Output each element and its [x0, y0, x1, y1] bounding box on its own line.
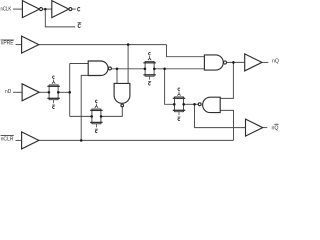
svg-text:nCLK: nCLK [1, 7, 12, 13]
svg-text:nQ: nQ [272, 58, 279, 64]
svg-text:nQ: nQ [272, 125, 280, 131]
svg-text:nPRE: nPRE [1, 41, 14, 47]
svg-text:nCLR: nCLR [1, 137, 14, 143]
svg-text:nD: nD [5, 89, 11, 95]
